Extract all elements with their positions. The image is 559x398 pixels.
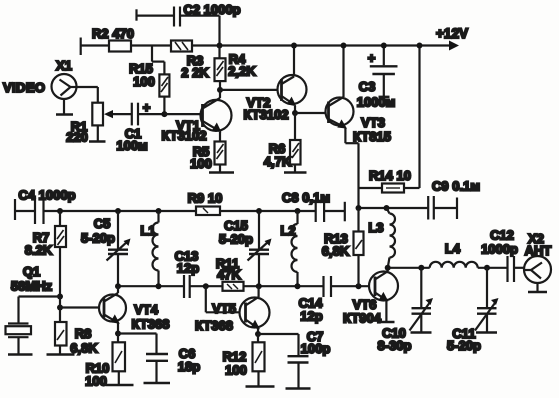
resistor R13 [354, 208, 364, 286]
svg-text:КТ368: КТ368 [195, 318, 233, 333]
svg-text:L4: L4 [445, 241, 461, 256]
node C10 top [418, 265, 424, 271]
wire VT3 emitter down [345, 128, 358, 208]
svg-text:R8: R8 [75, 326, 92, 341]
svg-text:100p: 100p [301, 341, 331, 356]
svg-text:VT5: VT5 [212, 301, 236, 316]
node VT4 collector [115, 283, 121, 289]
ground X2 [528, 283, 547, 292]
node rail/R7 [57, 208, 63, 214]
node VT1 base junction [161, 111, 167, 117]
wire output rail [388, 267, 524, 269]
capacitor C9 [428, 196, 457, 220]
svg-text:R9 10: R9 10 [188, 191, 223, 206]
node rail/C5 [115, 208, 121, 214]
svg-text:100: 100 [225, 363, 247, 378]
svg-text:C4 1000p: C4 1000p [18, 188, 75, 203]
svg-text:C12: C12 [490, 228, 514, 243]
svg-text:L3: L3 [368, 220, 383, 235]
resistor R11 [223, 282, 244, 291]
wire VT3 emitter rail right [359, 207, 429, 209]
wire oscillator rail [15, 210, 345, 212]
capacitor C13 [184, 275, 190, 298]
svg-text:+12V: +12V [436, 26, 468, 41]
transistor VT1 [201, 90, 232, 132]
svg-text:100: 100 [190, 156, 212, 171]
ground VT6 emitter [378, 321, 395, 324]
node L1 bottom [156, 283, 162, 289]
svg-text:R2 470: R2 470 [92, 26, 134, 41]
svg-text:C5: C5 [94, 216, 111, 231]
resistor R12 [253, 334, 265, 386]
node R13 top junction [356, 205, 362, 211]
inductor L2 [292, 211, 298, 286]
ground R12 [246, 385, 275, 388]
node rail/L2 [295, 208, 301, 214]
wire VT2 emitter to VT3 base [295, 112, 329, 114]
crystal Q1 [6, 324, 32, 354]
wire R15 to VT1 base node [163, 97, 165, 115]
svg-text:VT3: VT3 [361, 115, 385, 130]
ground R10 [106, 384, 134, 387]
svg-text:КТ904: КТ904 [343, 311, 382, 326]
svg-text:КТ368: КТ368 [132, 317, 170, 332]
node VT6 collector [385, 265, 391, 271]
resistor R2 [109, 41, 131, 52]
svg-text:C3: C3 [359, 79, 376, 94]
node R13 bottom [356, 283, 362, 289]
node L2 bottom [295, 283, 301, 289]
transistor VT2 [278, 46, 307, 114]
transistor VT5 [240, 286, 270, 334]
svg-text:АНТ: АНТ [525, 243, 552, 258]
ground C11 [476, 331, 497, 334]
svg-text:4,7K: 4,7K [264, 154, 292, 169]
svg-text:12p: 12p [300, 309, 322, 324]
capacitor C12 [508, 256, 515, 282]
svg-text:VT4: VT4 [134, 302, 159, 317]
svg-text:47K: 47K [217, 267, 241, 282]
rail left terminator bar [80, 38, 82, 56]
ground C6 [144, 382, 171, 385]
wire R2/R3 tap to R15 [152, 46, 164, 75]
node R14/rail [417, 43, 423, 49]
connector X2 [524, 256, 551, 283]
svg-text:R14 10: R14 10 [369, 168, 411, 183]
svg-text:5-20p: 5-20p [219, 232, 253, 247]
capacitor C14 [324, 276, 332, 297]
ground R5 [209, 171, 234, 174]
resistor R7 [55, 211, 66, 297]
resistor R6 [290, 113, 301, 172]
node rail/L1 [156, 208, 162, 214]
node VT2 emitter junction [292, 110, 298, 116]
node Q1 junction [57, 294, 63, 300]
inductor L1 [153, 211, 159, 286]
svg-text:100м: 100м [116, 138, 147, 153]
svg-text:5-20p: 5-20p [81, 231, 115, 246]
capacitor C2 [137, 7, 220, 46]
svg-text:2,2K: 2,2K [228, 64, 256, 79]
variable capacitor C5 [107, 211, 131, 286]
node VT4 emitter [115, 331, 121, 337]
svg-text:1000p: 1000p [481, 242, 518, 257]
node L3 top junction [384, 205, 390, 211]
svg-text:КТ3102: КТ3102 [161, 128, 206, 143]
ground R8 [47, 353, 75, 356]
connector X1 [52, 74, 78, 99]
svg-text:VIDEO: VIDEO [3, 80, 45, 95]
variable capacitor C15 [248, 211, 272, 286]
wire VT5 base L [206, 286, 246, 312]
svg-text:2 2K: 2 2K [181, 65, 209, 80]
ground C10 [411, 331, 432, 334]
svg-text:+: + [143, 100, 151, 115]
svg-text:100: 100 [85, 374, 107, 389]
svg-text:12p: 12p [177, 261, 199, 276]
svg-text:C9 0.1м: C9 0.1м [432, 179, 480, 194]
ground Q1 [8, 353, 33, 356]
svg-text:КТ3102: КТ3102 [243, 107, 288, 122]
capacitor C8 [316, 200, 345, 222]
inductor L3 [387, 208, 396, 268]
svg-text:8-30p: 8-30p [378, 338, 412, 353]
inductor L4 [430, 262, 478, 268]
transistor VT6 [369, 268, 398, 321]
node VT2 collector/rail [291, 43, 297, 49]
svg-text:L2: L2 [280, 223, 295, 238]
potentiometer R1 [92, 103, 103, 126]
capacitor C3 [370, 46, 398, 97]
resistor R14 [359, 46, 420, 193]
svg-text:L1: L1 [140, 223, 155, 238]
node VT4 base junction [57, 305, 63, 311]
svg-text:5-20p: 5-20p [447, 338, 481, 353]
svg-text:Q1: Q1 [23, 264, 40, 279]
resistor R10 [113, 334, 126, 385]
variable capacitor C10 [410, 268, 434, 332]
svg-text:18p: 18p [178, 359, 200, 374]
svg-text:X1: X1 [56, 58, 72, 73]
capacitor C4 [15, 198, 44, 224]
capacitor C7 [258, 334, 309, 388]
ground R1 [89, 125, 106, 141]
svg-text:C2 1000p: C2 1000p [183, 2, 240, 17]
resistor R3 [171, 41, 192, 52]
svg-text:C8 0,1м: C8 0,1м [282, 190, 330, 205]
wire oscillator bus [118, 285, 375, 287]
ground C7 [286, 387, 311, 390]
capacitor C6 [118, 334, 168, 383]
node rail/C15 [256, 208, 262, 214]
variable capacitor C11 [475, 268, 499, 332]
resistor R9 [196, 207, 220, 216]
node VT5 collector [256, 283, 262, 289]
resistor R8 [55, 322, 67, 354]
wire X1 to R1 [77, 87, 98, 103]
ground X1 [56, 99, 73, 115]
wire +12V rail [81, 44, 450, 46]
node VT3 collector/rail [341, 43, 347, 49]
wire to crystal [19, 297, 61, 323]
node C2/rail junction [217, 43, 223, 49]
svg-text:6,8K: 6,8K [322, 244, 350, 259]
transistor VT3 [326, 46, 354, 129]
svg-text:1000м: 1000м [357, 95, 396, 110]
node VT5 emitter [255, 331, 261, 337]
node C11 top [484, 265, 490, 271]
svg-text:58MHz: 58MHz [11, 279, 53, 294]
R1 wiper arrow [104, 110, 132, 118]
capacitor C1 [132, 103, 165, 126]
svg-text:8.2K: 8.2K [25, 243, 53, 258]
svg-text:100: 100 [133, 74, 155, 89]
wire VT1 collector to VT2 base [220, 89, 282, 91]
wire R7 node to VT4 base [60, 297, 104, 323]
svg-text:КТ815: КТ815 [353, 129, 391, 144]
resistor R5 [215, 132, 226, 172]
ground R6 [284, 171, 307, 174]
node C3/rail [381, 43, 387, 49]
node VT5 base junction [203, 283, 209, 289]
resistor R4 [215, 46, 226, 90]
+12V arrow [449, 41, 459, 51]
node VT1 collector junction [217, 87, 223, 93]
svg-text:+: + [368, 51, 376, 66]
transistor VT4 [99, 286, 126, 333]
resistor R15 [159, 74, 169, 96]
svg-text:220: 220 [66, 130, 88, 145]
wire base node to VT1 [164, 113, 202, 115]
